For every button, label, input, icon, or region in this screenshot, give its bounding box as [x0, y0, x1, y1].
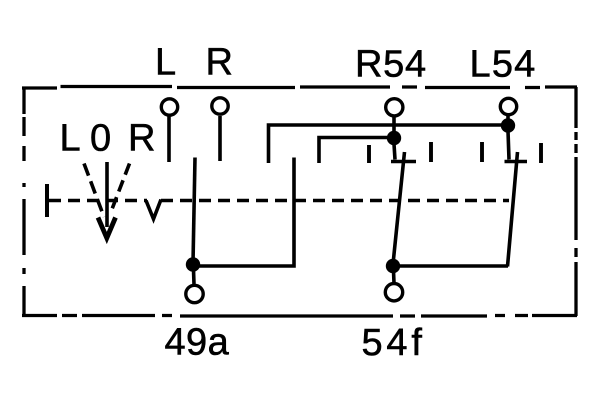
svg-text:R54: R54 [355, 44, 427, 86]
lever travel dashed line (left of notch) [49, 199, 147, 203]
enclosure bottom border [22, 314, 577, 318]
svg-text:L54: L54 [470, 44, 537, 86]
svg-text:R: R [128, 118, 155, 160]
wire 49a stem [192, 270, 196, 284]
stationary contact tick 2 [429, 142, 433, 162]
lever arrow shaft (position 0) [105, 162, 109, 227]
terminal L circle [161, 99, 177, 115]
stationary contact tick 4 [539, 143, 543, 163]
stationary contact tick 1 [367, 145, 371, 163]
terminal R54 circle [386, 99, 403, 116]
movable contact L54 (stem, foot, arm) [505, 131, 528, 267]
lever arrowhead [98, 218, 116, 239]
svg-text:0: 0 [90, 118, 111, 160]
stationary contact tick 3 [480, 142, 484, 162]
svg-text:49a: 49a [165, 322, 230, 364]
svg-text:L: L [155, 42, 176, 84]
lever stop T bar [45, 184, 49, 217]
wire L54 stem [506, 116, 510, 122]
wire 54f stem [392, 271, 396, 283]
lever position L dashed diagonal [84, 164, 104, 218]
enclosure top border [22, 87, 577, 89]
lever travel dashed line (right of notch) [161, 199, 509, 203]
junction dot R54 [387, 131, 401, 145]
movable contact 49a arm [193, 158, 195, 264]
wire 54f horizontal [393, 264, 508, 268]
detent notch V [146, 200, 161, 220]
svg-text:L: L [60, 118, 81, 160]
svg-text:54f: 54f [362, 322, 426, 364]
junction dot 54f [386, 259, 400, 273]
terminal R circle [212, 98, 228, 114]
wire R stem [218, 116, 222, 161]
junction dot L54 [501, 118, 515, 132]
wire bus from L54 to left contact finger [269, 125, 509, 163]
enclosure left border [22, 87, 25, 316]
movable contact R54 (stem, foot, arm) [391, 144, 416, 264]
enclosure right border [574, 87, 577, 316]
wire bus from R54 to inner contact finger [319, 138, 394, 164]
wire R54 stem [392, 117, 396, 134]
wire 49a return (horizontal and up finger) [193, 158, 294, 267]
svg-text:R: R [206, 42, 233, 84]
lever position R dashed diagonal [111, 164, 130, 214]
junction dot 49a [186, 257, 200, 271]
terminal L54 circle [500, 98, 516, 114]
terminal 49a circle [186, 285, 203, 302]
wire L stem [167, 117, 171, 163]
terminal 54f circle [385, 284, 402, 301]
